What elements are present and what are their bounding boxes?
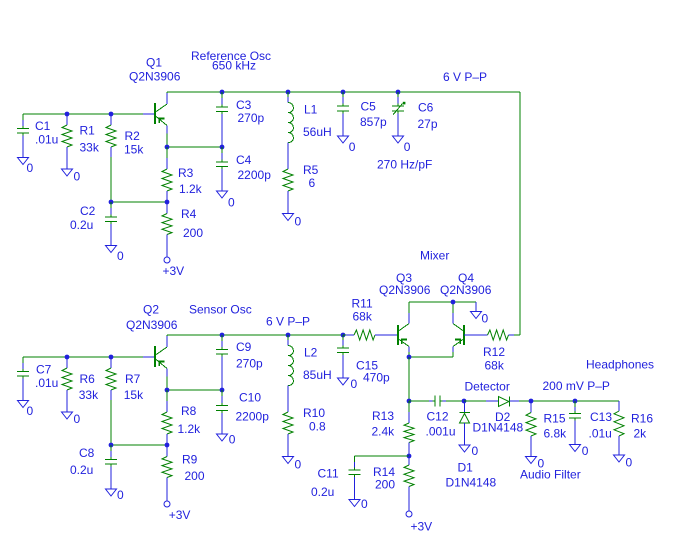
- svg-text:0: 0: [74, 412, 81, 426]
- svg-text:0: 0: [229, 433, 236, 447]
- svg-text:C12: C12: [427, 410, 449, 424]
- svg-text:R6: R6: [80, 372, 96, 386]
- svg-text:C4: C4: [236, 153, 252, 167]
- svg-text:.01u: .01u: [589, 427, 612, 441]
- svg-text:.001u: .001u: [426, 425, 456, 439]
- svg-text:270p: 270p: [236, 357, 263, 371]
- svg-text:0: 0: [582, 444, 589, 458]
- svg-text:33k: 33k: [79, 388, 99, 402]
- svg-text:Audio Filter: Audio Filter: [520, 468, 581, 482]
- svg-text:200: 200: [183, 226, 203, 240]
- svg-text:Q2N3906: Q2N3906: [129, 70, 181, 84]
- svg-text:R13: R13: [372, 409, 394, 423]
- svg-text:0.2u: 0.2u: [311, 485, 334, 499]
- svg-text:+3V: +3V: [163, 264, 185, 278]
- svg-text:Sensor Osc: Sensor Osc: [189, 303, 252, 317]
- svg-text:0: 0: [27, 404, 34, 418]
- svg-text:C10: C10: [239, 391, 261, 405]
- svg-text:L1: L1: [304, 103, 318, 117]
- svg-text:R10: R10: [303, 406, 325, 420]
- svg-text:D1: D1: [458, 461, 474, 475]
- svg-text:0: 0: [404, 140, 411, 154]
- svg-text:0: 0: [295, 458, 302, 472]
- svg-text:.01u: .01u: [35, 133, 58, 147]
- svg-text:Headphones: Headphones: [586, 358, 654, 372]
- svg-text:270 Hz/pF: 270 Hz/pF: [377, 158, 432, 172]
- svg-text:1.2k: 1.2k: [178, 422, 202, 436]
- svg-text:1.2k: 1.2k: [179, 182, 203, 196]
- svg-text:6 V P–P: 6 V P–P: [266, 315, 310, 329]
- svg-text:2200p: 2200p: [238, 168, 272, 182]
- svg-text:Q2N3906: Q2N3906: [126, 318, 178, 332]
- svg-text:C3: C3: [236, 98, 252, 112]
- svg-text:0: 0: [361, 497, 368, 511]
- svg-text:C1: C1: [35, 119, 51, 133]
- svg-text:C5: C5: [361, 100, 377, 114]
- svg-text:33k: 33k: [80, 141, 100, 155]
- svg-text:270p: 270p: [238, 111, 265, 125]
- svg-text:27p: 27p: [418, 117, 438, 131]
- svg-text:Detector: Detector: [465, 380, 510, 394]
- svg-text:+3V: +3V: [411, 520, 433, 534]
- svg-text:R7: R7: [125, 372, 141, 386]
- svg-text:857p: 857p: [360, 115, 387, 129]
- svg-text:D1N4148: D1N4148: [473, 421, 524, 435]
- svg-text:0: 0: [74, 170, 81, 184]
- svg-text:650 kHz: 650 kHz: [212, 59, 256, 73]
- svg-text:470p: 470p: [363, 371, 390, 385]
- svg-text:85uH: 85uH: [303, 368, 332, 382]
- svg-text:15k: 15k: [124, 143, 144, 157]
- svg-text:L2: L2: [304, 346, 318, 360]
- svg-text:R15: R15: [544, 412, 566, 426]
- svg-text:68k: 68k: [485, 359, 505, 373]
- svg-text:Q1: Q1: [146, 56, 162, 70]
- svg-text:C2: C2: [80, 204, 96, 218]
- svg-text:0.2u: 0.2u: [70, 463, 93, 477]
- svg-text:200: 200: [185, 469, 205, 483]
- svg-text:Q2N3906: Q2N3906: [440, 283, 492, 297]
- svg-text:200 mV P–P: 200 mV P–P: [543, 379, 610, 393]
- svg-text:R11: R11: [352, 297, 373, 311]
- svg-text:R3: R3: [178, 166, 194, 180]
- svg-text:R4: R4: [181, 207, 197, 221]
- svg-text:R5: R5: [303, 163, 319, 177]
- svg-text:0: 0: [351, 377, 358, 391]
- svg-text:0.8: 0.8: [309, 420, 326, 434]
- svg-text:6.8k: 6.8k: [544, 427, 568, 441]
- svg-text:R16: R16: [631, 412, 653, 426]
- svg-text:Q2N3906: Q2N3906: [379, 283, 431, 297]
- svg-text:0: 0: [117, 488, 124, 502]
- svg-text:C13: C13: [590, 410, 612, 424]
- svg-text:68k: 68k: [353, 310, 373, 324]
- svg-text:0: 0: [482, 312, 489, 326]
- svg-text:Mixer: Mixer: [420, 249, 449, 263]
- svg-text:C7: C7: [36, 363, 52, 377]
- svg-text:R2: R2: [125, 129, 141, 143]
- svg-text:C6: C6: [418, 101, 434, 115]
- svg-text:C9: C9: [236, 340, 252, 354]
- svg-text:56uH: 56uH: [303, 125, 332, 139]
- svg-text:D1N4148: D1N4148: [446, 476, 497, 490]
- svg-text:2.4k: 2.4k: [372, 425, 396, 439]
- svg-text:R1: R1: [80, 124, 96, 138]
- svg-text:.01u: .01u: [35, 376, 58, 390]
- svg-text:+3V: +3V: [169, 508, 191, 522]
- svg-text:0.2u: 0.2u: [70, 218, 93, 232]
- svg-text:Q2: Q2: [143, 303, 159, 317]
- svg-text:0: 0: [117, 249, 124, 263]
- svg-text:R12: R12: [483, 345, 505, 359]
- svg-text:0: 0: [27, 161, 34, 175]
- svg-text:0: 0: [228, 196, 235, 210]
- svg-text:0: 0: [626, 456, 633, 470]
- svg-text:6: 6: [309, 176, 316, 190]
- svg-text:C8: C8: [79, 446, 95, 460]
- svg-text:R8: R8: [181, 404, 197, 418]
- svg-text:2200p: 2200p: [236, 410, 270, 424]
- svg-text:0: 0: [349, 140, 356, 154]
- svg-text:0: 0: [472, 444, 479, 458]
- svg-text:6 V P–P: 6 V P–P: [443, 70, 487, 84]
- svg-text:R9: R9: [182, 453, 198, 467]
- svg-text:15k: 15k: [124, 388, 144, 402]
- svg-text:C11: C11: [318, 467, 339, 481]
- svg-text:2k: 2k: [634, 427, 648, 441]
- svg-text:200: 200: [375, 478, 395, 492]
- svg-text:0: 0: [295, 215, 302, 229]
